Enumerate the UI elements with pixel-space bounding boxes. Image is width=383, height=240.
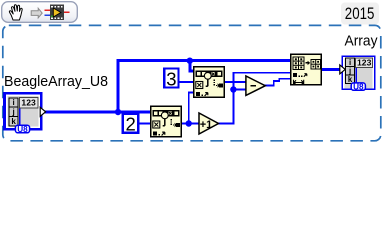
wire: terminal to node1 array input (thick 1D-array wire) bbox=[44, 111, 152, 114]
index glyph bbox=[293, 73, 297, 77]
constant 2 bbox=[123, 114, 139, 135]
node3: Array Subset function bbox=[290, 54, 322, 86]
snippet dashed border bbox=[3, 25, 381, 140]
wire: top horizontal array wire toward node3 bbox=[117, 59, 293, 62]
arrow bbox=[305, 62, 308, 64]
output arrow bbox=[40, 107, 45, 116]
123 numeric display bbox=[356, 58, 373, 68]
right subset grid bbox=[311, 60, 321, 70]
toolbar bbox=[2, 2, 78, 23]
svg-text:123: 123 bbox=[21, 98, 36, 108]
array strip bbox=[153, 110, 180, 117]
svg-text:2015: 2015 bbox=[345, 4, 375, 23]
length glyph bbox=[294, 80, 304, 85]
U8 tab bbox=[351, 83, 365, 90]
svg-text:3: 3 bbox=[166, 68, 176, 89]
svg-text:BeagleArray_U8: BeagleArray_U8 bbox=[4, 74, 108, 90]
junction D bbox=[230, 86, 236, 92]
hand tool icon bbox=[9, 5, 22, 20]
123 numeric display bbox=[19, 98, 38, 108]
junction C bbox=[186, 120, 192, 126]
control terminal BeagleArray_U8 bbox=[3, 92, 45, 134]
dotted arrow to element bbox=[171, 119, 175, 126]
arrow (run) icon bbox=[31, 8, 42, 18]
snippet film icon bbox=[45, 5, 70, 21]
wire: branch up from junction C to node2 second index input bbox=[188, 92, 190, 124]
wire: vertical branch up from junction A bbox=[117, 59, 120, 114]
wire: node1 output to increment input bbox=[182, 123, 200, 125]
svg-text:U8: U8 bbox=[17, 125, 28, 134]
wire: subtract output staircase to node3 length input bbox=[265, 85, 275, 87]
wire: up branch to node3 index input bbox=[233, 72, 292, 74]
bottom-left n-dim glyph bbox=[153, 131, 157, 135]
svg-text:i: i bbox=[12, 98, 14, 107]
i j k index boxes bbox=[9, 98, 18, 126]
svg-text:Array: Array bbox=[345, 33, 379, 49]
U8 tab bbox=[15, 125, 29, 133]
canvas background bbox=[0, 0, 383, 143]
junction A bbox=[115, 109, 121, 115]
input arrow bbox=[340, 65, 345, 74]
node2: Index Array function bbox=[193, 66, 225, 98]
index box bbox=[153, 121, 160, 128]
node +1: increment bbox=[199, 113, 219, 134]
svg-text:123: 123 bbox=[357, 58, 372, 68]
svg-text:U8: U8 bbox=[353, 82, 364, 91]
left source grid bbox=[293, 57, 304, 70]
wire: branch down from junction B into node2 array input bbox=[188, 59, 191, 73]
i j k index boxes bbox=[346, 58, 355, 83]
svg-text:+1: +1 bbox=[200, 119, 213, 131]
2015 version badge bbox=[341, 3, 379, 25]
wire: constant 3 to node2 index input bbox=[178, 81, 195, 83]
wire: node3 output to Array indicator (thick) bbox=[321, 68, 343, 71]
svg-text:2: 2 bbox=[125, 114, 135, 135]
svg-text:k: k bbox=[11, 117, 16, 126]
node subtract bbox=[246, 76, 265, 95]
junction B bbox=[187, 58, 193, 64]
constant 3 bbox=[164, 68, 178, 89]
wire: increment output right then up bbox=[218, 123, 234, 125]
svg-text:j: j bbox=[11, 108, 14, 117]
indicator terminal Array bbox=[340, 56, 376, 92]
wire: junction D to subtract lower input bbox=[233, 89, 248, 91]
blue column line bbox=[19, 108, 21, 126]
node1: Index Array function bbox=[150, 106, 182, 138]
wire: constant 2 to node1 index input bbox=[139, 123, 152, 125]
wire: node2 output to subtract upper input bbox=[225, 81, 247, 83]
